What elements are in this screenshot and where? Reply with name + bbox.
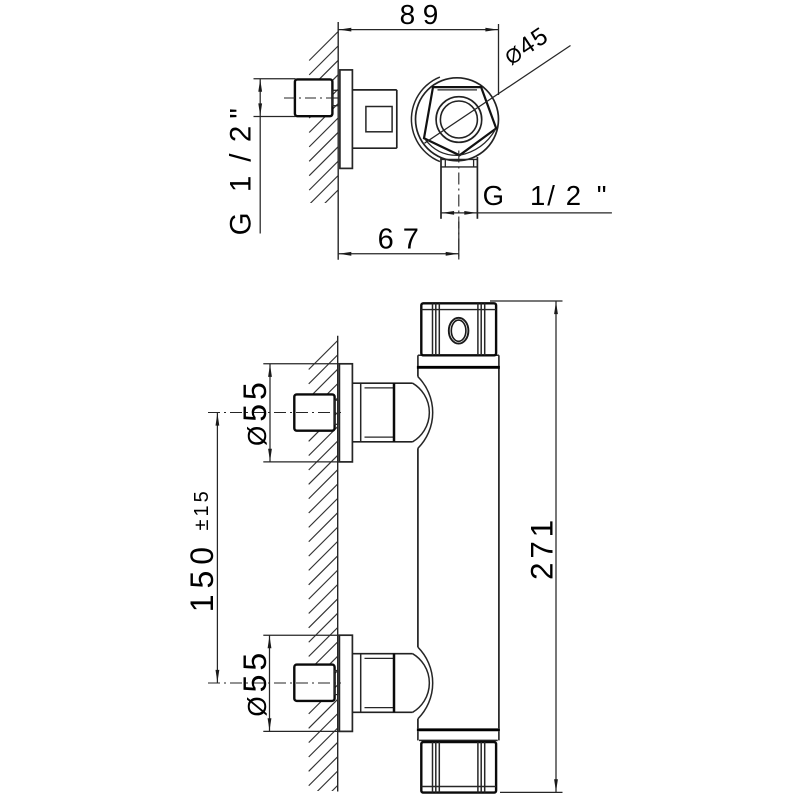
top collar [418,355,499,366]
supply pipe block (top view) [295,79,333,116]
centerline supply pipe (top view) [284,97,341,99]
svg-text:±15: ±15 [191,488,213,530]
top cap [421,303,496,355]
dimension phi55 lower [263,635,352,731]
svg-text:Ø55: Ø55 [237,382,273,446]
dimension 150 [216,413,220,684]
upper flange escutcheon [339,364,352,462]
wall hatch (front view) [309,341,338,800]
dimension phi55 upper [263,364,352,462]
body right edge [498,368,500,728]
valve body rear arc (top view) [411,77,439,162]
svg-text:150: 150 [184,541,220,612]
svg-text:Ø55: Ø55 [237,653,273,717]
lower supply block [294,665,334,701]
bottom collar [418,731,499,740]
top dark ring [417,366,500,369]
lower wall coupling [335,671,338,695]
dimension 271 [490,301,563,792]
outlet pipe (top view) [441,157,477,219]
dimension G 1/2 inlet (top view) [254,79,296,234]
leader line d45 [425,46,571,144]
horizontal pipe (top view) [352,90,396,148]
hex nut chamfer lines [425,90,495,155]
wall hatch (top view) [309,32,338,219]
upper wall coupling [335,400,338,424]
centerline outlet (top view) [458,151,460,260]
dimension G 1/2 outlet (top view) [441,211,612,215]
valve body circle (top view) [416,78,499,161]
wall coupling (top view) [332,90,338,105]
dimension 89 [338,0,498,95]
body left edge [417,368,419,728]
wall face line (top view) [337,22,339,260]
top cap oval [449,318,469,344]
bottom cap [421,742,496,793]
adjuster notch (top view) [366,107,392,132]
hex nut outline (top view) [424,87,496,155]
upper bell connector [413,377,433,449]
centerline lower connection [208,682,341,684]
svg-text:271: 271 [523,516,559,580]
lower bell connector [413,647,433,719]
lower flange escutcheon [339,635,352,731]
centerline upper connection [208,412,341,414]
dimension 67 [338,222,459,260]
upper supply block [294,394,334,430]
bore circles (top view) [436,97,482,143]
wall face line (front view) [337,336,339,792]
upper union nut [352,383,412,442]
bottom dark ring [417,728,500,731]
flange escutcheon (top view) [340,70,353,168]
lower union nut [352,654,412,713]
